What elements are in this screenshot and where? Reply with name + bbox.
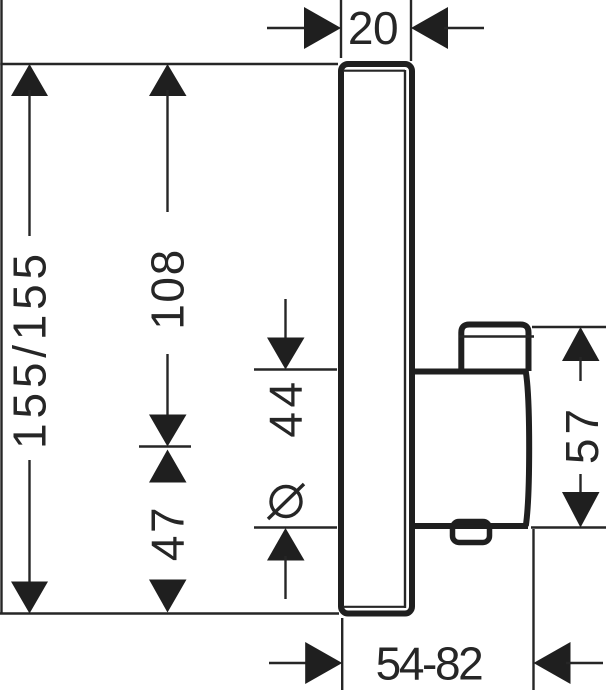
dimension diameter 44 line upper — [284, 299, 286, 340]
svg-text:54-82: 54-82 — [376, 638, 482, 690]
tick handle top — [254, 368, 337, 370]
svg-text:155/155: 155/155 — [4, 249, 56, 449]
extension line handle bottom right — [531, 526, 606, 528]
svg-text:108: 108 — [142, 248, 194, 330]
frame border left — [0, 0, 2, 614]
dimension 155/155 arrow up — [11, 64, 48, 96]
dimension 47 arrow up — [149, 450, 187, 483]
svg-text:47: 47 — [142, 505, 194, 561]
plate inner top edge — [343, 70, 405, 72]
svg-text:20: 20 — [348, 2, 398, 54]
dimension 57 line upper — [579, 357, 581, 381]
extension line 54-82 left — [341, 618, 343, 690]
dimension 57 arrow down — [562, 492, 600, 528]
dimension 57 arrow up — [562, 327, 600, 361]
handle bottom nub — [453, 522, 490, 543]
dimension 44 line lower — [284, 556, 286, 599]
dimension 108 arrow up — [149, 64, 187, 96]
handle cap parting line — [459, 335, 534, 337]
dimension 54-82 arrow left-pointing — [534, 642, 571, 684]
dimension 108 arrow down — [149, 415, 187, 447]
tick handle centerline — [139, 445, 191, 447]
tick handle bottom — [254, 526, 337, 528]
diameter symbol — [268, 484, 304, 519]
plate escutcheon outer — [341, 64, 412, 614]
dimension 20 arrow left-pointing — [411, 7, 448, 49]
dimension 108 line lower — [166, 354, 168, 420]
dimension 57 line lower — [579, 474, 581, 497]
dimension 54-82 tail left — [269, 662, 308, 664]
dimension 44 arrow down — [267, 338, 305, 370]
dimension 108 line upper — [166, 90, 168, 212]
extension line bottom (plate bottom) — [0, 612, 339, 614]
dimension 47 arrow down — [149, 580, 187, 613]
dimension 54-82 tail right — [566, 662, 603, 664]
svg-text:57: 57 — [556, 405, 608, 464]
dimension 155/155 line upper — [28, 90, 30, 236]
handle body top edge — [411, 369, 529, 375]
handle body bottom edge — [413, 523, 528, 529]
extension line 54-82 right — [532, 529, 534, 690]
svg-text:44: 44 — [260, 377, 312, 437]
dimension 44 arrow up — [267, 528, 305, 561]
dimension 54-82 arrow right-pointing — [305, 642, 342, 684]
dimension 20 tail right — [444, 27, 484, 29]
dimension 155/155 line lower — [28, 460, 30, 585]
dimension 20 tail left — [267, 27, 308, 29]
plate inner right edge — [404, 70, 406, 608]
dimension 20 extension right — [410, 0, 412, 61]
handle body right edge — [526, 372, 529, 527]
extension line handle cap top — [532, 326, 606, 328]
dimension 20 extension left — [340, 0, 342, 58]
dimension 20 arrow right-pointing — [304, 7, 341, 49]
handle cap outline — [461, 325, 528, 372]
plate inner bottom edge — [343, 606, 405, 608]
extension line top (plate top) — [0, 63, 338, 65]
dimension 155/155 arrow down — [11, 582, 48, 614]
